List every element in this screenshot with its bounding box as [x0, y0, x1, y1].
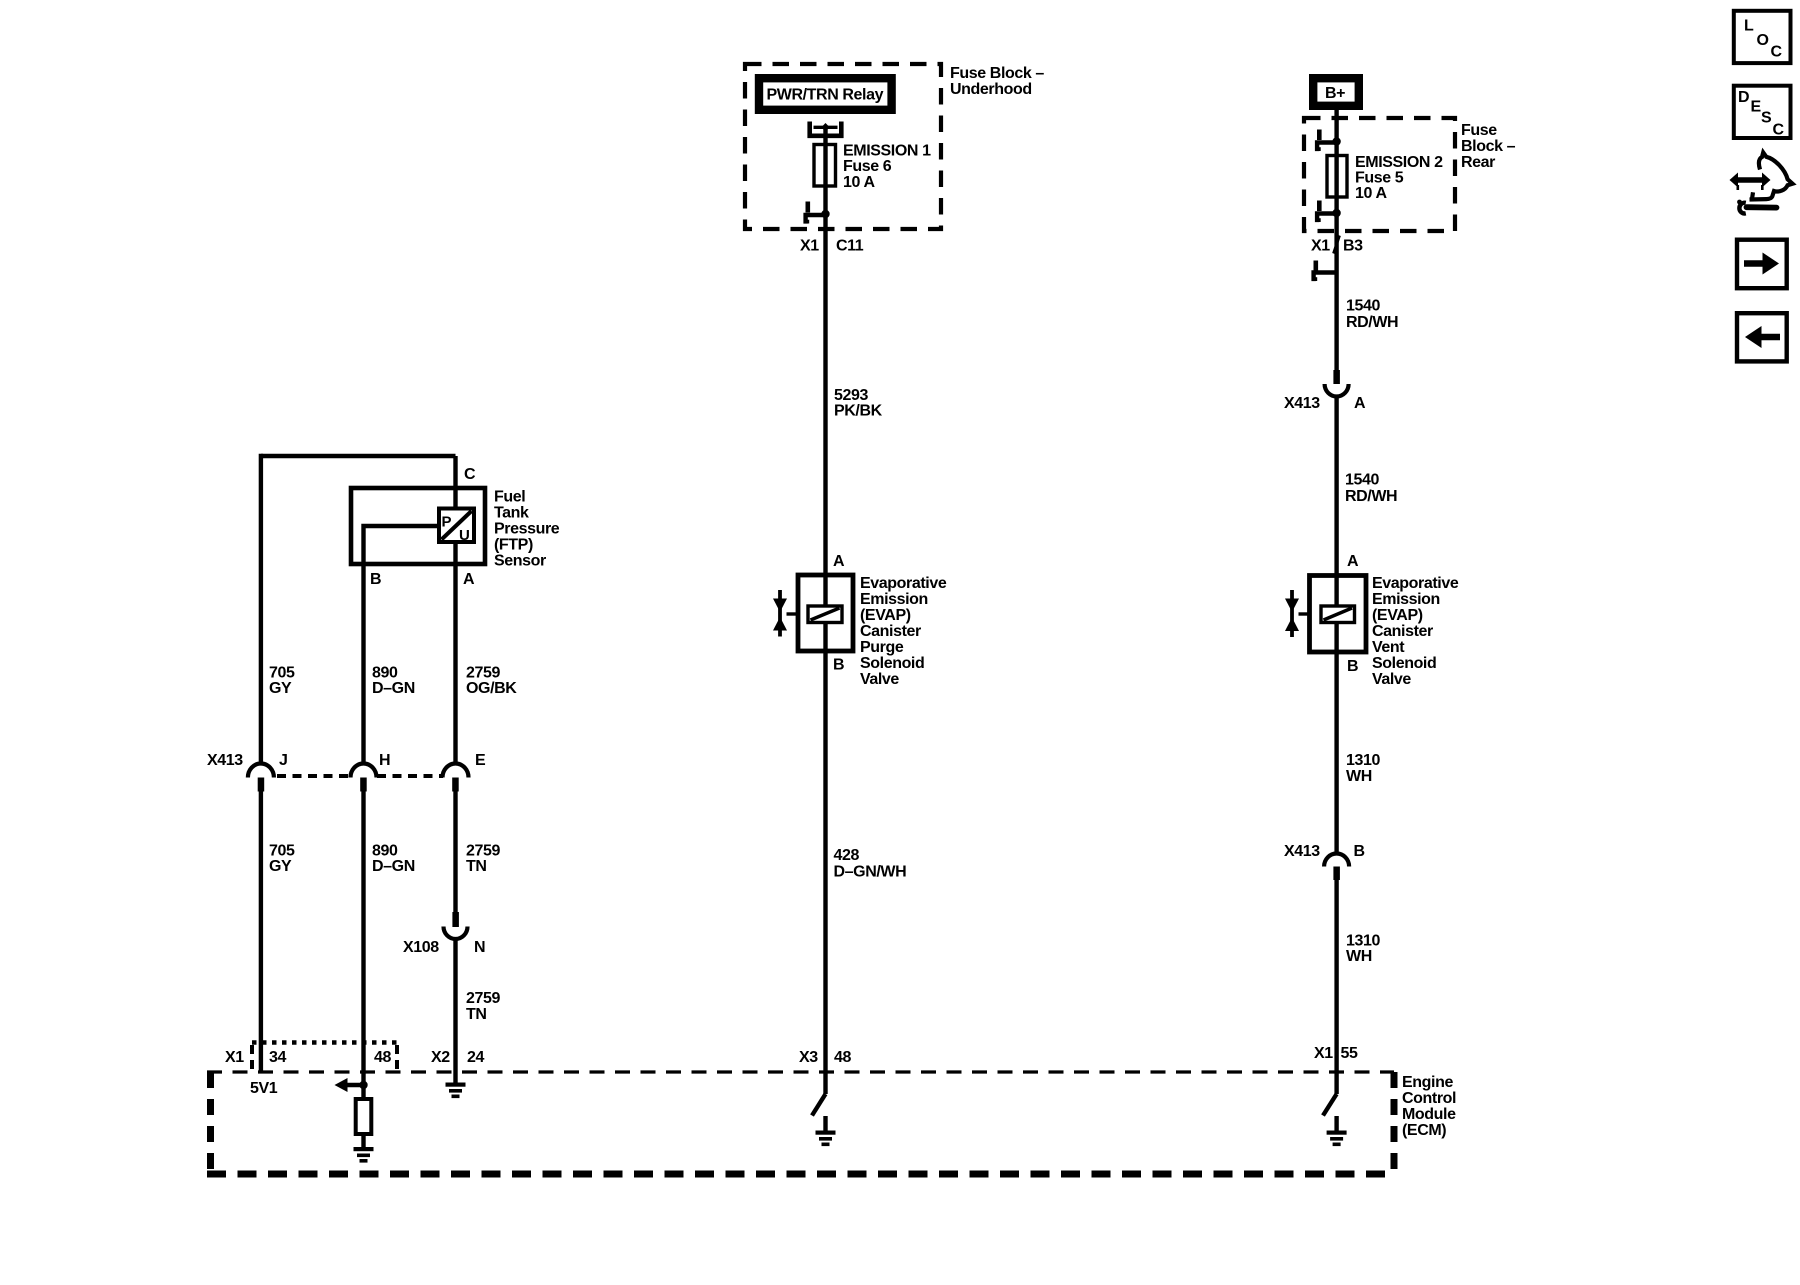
svg-text:Solenoid: Solenoid [1372, 655, 1436, 672]
ground inside ECM (X2-24) [446, 1083, 466, 1099]
svg-text:48: 48 [374, 1049, 391, 1066]
svg-text:GY: GY [269, 858, 292, 875]
svg-text:X108: X108 [403, 939, 439, 956]
svg-text:J: J [279, 752, 288, 769]
svg-text:Canister: Canister [1372, 623, 1433, 640]
svg-text:D–GN: D–GN [372, 680, 415, 697]
fuse F5 (EMISSION 2) [1327, 156, 1347, 198]
wire through purge solenoid [823, 575, 827, 651]
svg-text:X1: X1 [225, 1049, 244, 1066]
label 1310 WH upper [1346, 752, 1380, 785]
connector X413 pin E [443, 764, 469, 792]
wire 5293 PK/BK [823, 214, 827, 575]
svg-text:24: 24 [467, 1049, 484, 1066]
wire 1310 WH upper [1334, 652, 1338, 853]
label 705 GY upper [269, 665, 295, 698]
svg-text:B: B [1354, 843, 1365, 860]
svg-text:(ECM): (ECM) [1402, 1122, 1446, 1139]
connector X413 pin A (inline) [1325, 370, 1349, 397]
svg-text:Solenoid: Solenoid [860, 655, 924, 672]
wire FTP internal B leg [364, 526, 440, 564]
icon DESC box [1734, 86, 1791, 139]
junction dot below fuse 5 [1332, 209, 1340, 217]
connector X413 row dashed link [277, 774, 443, 778]
fuse block clip symbol above fuse 5 [1317, 130, 1337, 152]
svg-text:X413: X413 [207, 752, 243, 769]
svg-text:55: 55 [1341, 1045, 1358, 1062]
wire FTP C loop (top horizontal) [261, 454, 456, 458]
label X108 N [403, 939, 485, 956]
svg-text:D–GN/WH: D–GN/WH [834, 863, 907, 880]
wire 890 D-GN upper [361, 564, 365, 764]
svg-text:C: C [1773, 122, 1785, 139]
svg-text:O: O [1757, 32, 1769, 49]
svg-text:X1: X1 [1314, 1045, 1333, 1062]
svg-text:RD/WH: RD/WH [1346, 314, 1398, 331]
wire resistor to ground [361, 1134, 365, 1147]
switch element inside ECM (X1-55) [1323, 1094, 1337, 1116]
svg-text:C: C [464, 466, 476, 483]
wire 2759 TN upper [453, 792, 457, 913]
svg-text:A: A [833, 553, 845, 570]
label 705 GY lower [269, 843, 295, 876]
svg-text:Valve: Valve [860, 671, 899, 688]
relay K (PWR/TRN Relay) label box [759, 78, 892, 110]
label Fuse Block - Underhood [950, 65, 1044, 98]
fuse block underhood dashed box [745, 64, 941, 229]
fuse block internal clip symbol below fuse 6 [806, 202, 826, 224]
splice clip symbol below X1 B3 [1314, 261, 1337, 282]
svg-text:D: D [1738, 89, 1749, 106]
pin labels X1 34 48 X2 24 [225, 1049, 484, 1066]
svg-text:Canister: Canister [860, 623, 921, 640]
svg-text:RD/WH: RD/WH [1345, 488, 1397, 505]
svg-text:X1: X1 [800, 238, 819, 255]
icon LOC box [1734, 11, 1791, 63]
svg-text:Fuse 5: Fuse 5 [1355, 170, 1404, 187]
svg-text:Purge: Purge [860, 639, 904, 656]
svg-text:1310: 1310 [1346, 933, 1380, 950]
power feed B+ box [1313, 78, 1359, 106]
svg-text:N: N [474, 939, 485, 956]
wire FTP C drop into sensor [453, 456, 457, 509]
connector X108 pin N (inline) [444, 912, 468, 939]
svg-text:705: 705 [269, 665, 295, 682]
svg-text:Underhood: Underhood [950, 81, 1032, 98]
svg-text:Block –: Block – [1461, 138, 1516, 155]
svg-text:A: A [1354, 395, 1366, 412]
label 428 D-GN/WH [834, 847, 907, 880]
svg-text:Pressure: Pressure [494, 521, 560, 538]
wire 1540 RD/WH lower [1334, 397, 1338, 576]
svg-text:(FTP): (FTP) [494, 537, 533, 554]
svg-text:Evaporative: Evaporative [1372, 575, 1459, 592]
svg-text:WH: WH [1346, 948, 1372, 965]
svg-text:X1: X1 [1311, 238, 1330, 255]
solenoid coil symbol (vent) [1321, 606, 1355, 623]
svg-text:A: A [463, 571, 475, 588]
svg-text:C: C [1771, 44, 1783, 61]
label Fuse Block - Rear [1461, 122, 1516, 171]
pin label X1 C11 [800, 238, 864, 255]
switch element inside ECM (X3-48) [812, 1094, 826, 1116]
label 1540 RD/WH lower [1345, 472, 1397, 506]
svg-text:Emission: Emission [860, 591, 928, 608]
svg-text:Emission: Emission [1372, 591, 1440, 608]
svg-text:C11: C11 [836, 238, 864, 255]
svg-text:WH: WH [1346, 768, 1372, 785]
fuse block rear dashed box [1304, 118, 1455, 231]
svg-text:B+: B+ [1325, 85, 1345, 102]
pressure transducer P/U symbol [439, 509, 474, 545]
relay contact cup symbol [808, 122, 844, 139]
wire 705 GY lower [259, 792, 263, 1073]
wire B+ to fuse 5 [1334, 110, 1338, 370]
svg-text:(EVAP): (EVAP) [1372, 607, 1423, 624]
ground inside ECM (X1-55) [1327, 1116, 1347, 1146]
pneumatic valve symbol (vent) [1285, 590, 1310, 637]
svg-text:E: E [475, 752, 486, 769]
svg-text:1540: 1540 [1346, 298, 1380, 315]
wire through vent solenoid [1334, 575, 1338, 652]
connector X413 pin J [248, 764, 274, 792]
FTP sensor box [351, 488, 485, 564]
svg-text:EMISSION 2: EMISSION 2 [1355, 154, 1443, 171]
label Fuel Tank Pressure (FTP) Sensor [494, 489, 560, 570]
svg-text:Sensor: Sensor [494, 553, 546, 570]
svg-text:P: P [442, 514, 452, 531]
solenoid valve box (EVAP purge) [798, 575, 853, 651]
svg-text:TN: TN [466, 858, 487, 875]
svg-text:890: 890 [372, 665, 398, 682]
wire 2759 TN lower [453, 939, 457, 1083]
svg-text:34: 34 [269, 1049, 286, 1066]
svg-text:10 A: 10 A [1355, 185, 1387, 202]
svg-text:Fuse Block –: Fuse Block – [950, 65, 1044, 82]
pin label X1 B3 [1311, 238, 1363, 255]
icon arrow-right box [1737, 240, 1787, 289]
label 1310 WH lower [1346, 933, 1380, 966]
wire through fuse 6 [823, 145, 827, 187]
label 2759 TN upper [466, 843, 500, 876]
svg-text:Engine: Engine [1402, 1074, 1453, 1091]
svg-text:5V1: 5V1 [250, 1080, 278, 1097]
svg-text:Rear: Rear [1461, 154, 1495, 171]
svg-text:X413: X413 [1284, 843, 1320, 860]
wire 428 D-GN/WH [823, 651, 827, 1094]
fuse F6 (EMISSION 1) [814, 145, 836, 187]
svg-text:48: 48 [834, 1049, 851, 1066]
solenoid coil symbol (purge) [808, 606, 842, 623]
ECM dashed box [207, 1072, 1395, 1177]
svg-text:OG/BK: OG/BK [466, 680, 517, 697]
label 890 D-GN upper [372, 665, 415, 698]
junction dot at fuse 6 output [821, 210, 829, 218]
connector pass-through slash at X1 B3 [1334, 236, 1340, 254]
wire through fuse 5 [1334, 156, 1338, 198]
svg-text:5293: 5293 [834, 387, 868, 404]
svg-text:A: A [1347, 553, 1359, 570]
svg-text:2759: 2759 [466, 665, 500, 682]
label 890 D-GN lower [372, 843, 415, 876]
connector X1 dashed mini-box at ECM [252, 1043, 397, 1071]
svg-text:TN: TN [466, 1006, 487, 1023]
svg-text:705: 705 [269, 843, 295, 860]
ground inside ECM (X3-48) [816, 1116, 836, 1146]
label 2759 TN lower [466, 990, 500, 1023]
junction dot 890 at 5V1 node [359, 1081, 367, 1089]
wire 705 GY upper (left vertical) [259, 454, 263, 764]
svg-text:D–GN: D–GN [372, 858, 415, 875]
svg-text:Tank: Tank [494, 505, 529, 522]
svg-text:Fuse 6: Fuse 6 [843, 158, 892, 175]
svg-text:428: 428 [834, 847, 860, 864]
wire 2759 OG/BK [453, 564, 457, 764]
label EMISSION 2 Fuse 5 10 A [1355, 154, 1443, 202]
svg-text:Vent: Vent [1372, 639, 1405, 656]
icon schematic-navigation (double arrow, outline, wrench) [1730, 153, 1793, 214]
label X413 J H E [207, 752, 486, 769]
junction dot above fuse 5 [1332, 137, 1340, 145]
pin label X3 48 [799, 1049, 851, 1066]
svg-text:GY: GY [269, 680, 292, 697]
fuse block clip symbol below fuse 5 [1317, 201, 1337, 223]
icon arrow-left box [1737, 313, 1787, 361]
label Engine Control Module (ECM) [1402, 1074, 1456, 1139]
wire relay output to fuse 6 [823, 127, 827, 214]
svg-text:(EVAP): (EVAP) [860, 607, 911, 624]
label 5293 PK/BK [834, 387, 883, 420]
svg-text:B3: B3 [1343, 238, 1363, 255]
arrow internal 5V reference [335, 1078, 364, 1092]
svg-text:PK/BK: PK/BK [834, 403, 883, 420]
svg-text:B: B [1347, 658, 1358, 675]
svg-text:Module: Module [1402, 1106, 1456, 1123]
label X413 A [1284, 395, 1366, 412]
wire 1310 WH lower [1334, 880, 1338, 1094]
svg-text:2759: 2759 [466, 990, 500, 1007]
svg-text:X413: X413 [1284, 395, 1320, 412]
svg-text:H: H [379, 752, 390, 769]
svg-text:Evaporative: Evaporative [860, 575, 947, 592]
svg-text:Valve: Valve [1372, 671, 1411, 688]
ground inside ECM (below resistor) [354, 1147, 374, 1163]
svg-text:890: 890 [372, 843, 398, 860]
connector X413 pin B (inline) [1324, 854, 1349, 881]
svg-text:L: L [1744, 18, 1754, 35]
svg-text:X2: X2 [431, 1049, 450, 1066]
svg-text:S: S [1761, 110, 1772, 127]
svg-text:Fuel: Fuel [494, 489, 525, 506]
solenoid valve box (EVAP vent) [1310, 576, 1367, 653]
svg-text:PWR/TRN Relay: PWR/TRN Relay [767, 87, 884, 104]
svg-text:Control: Control [1402, 1090, 1456, 1107]
svg-text:EMISSION 1: EMISSION 1 [843, 143, 931, 160]
label EVAP Canister Purge Solenoid Valve [860, 575, 947, 688]
svg-text:2759: 2759 [466, 843, 500, 860]
svg-text:B: B [370, 571, 381, 588]
wire 1540 RD/WH upper [1346, 298, 1398, 332]
connector X413 pin H [351, 764, 377, 792]
svg-text:X3: X3 [799, 1049, 818, 1066]
svg-text:Fuse: Fuse [1461, 122, 1497, 139]
resistor inside ECM [356, 1099, 372, 1134]
svg-text:1310: 1310 [1346, 752, 1380, 769]
svg-text:U: U [459, 527, 469, 544]
label EMISSION 1 Fuse 6 10 A [843, 143, 931, 192]
label X413 B [1284, 843, 1365, 860]
pin label X1 55 [1314, 1045, 1358, 1062]
label 2759 OG/BK [466, 665, 517, 698]
wire FTP internal A leg [453, 540, 457, 564]
label EVAP Canister Vent Solenoid Valve [1372, 575, 1459, 688]
svg-text:E: E [1751, 99, 1762, 116]
wire 890 D-GN lower [361, 792, 365, 1100]
pneumatic valve symbol (purge) [773, 590, 798, 637]
svg-text:10 A: 10 A [843, 174, 875, 191]
svg-text:B: B [833, 657, 844, 674]
svg-text:1540: 1540 [1345, 472, 1379, 489]
